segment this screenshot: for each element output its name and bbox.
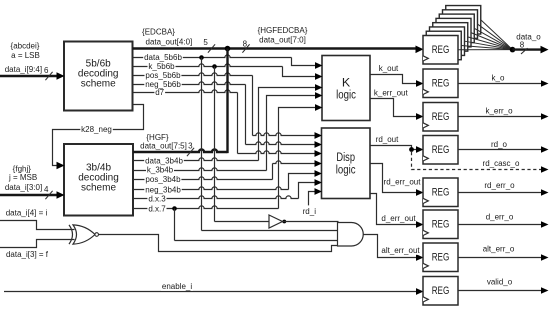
svg-text:data_out[4:0]: data_out[4:0] <box>146 37 193 46</box>
wire neg_5b6b to Disp input 2 <box>133 82 246 85</box>
arrowhead into k REG <box>416 80 424 87</box>
arrowhead into Disp input 4 <box>315 160 323 167</box>
junction dot buffer output <box>282 220 286 224</box>
svg-text:K: K <box>342 78 351 90</box>
wire output k_err_o <box>458 116 542 118</box>
svg-text:REG: REG <box>432 219 450 231</box>
arrowhead into Disp input 6 <box>315 179 323 186</box>
svg-text:REG: REG <box>432 44 450 56</box>
input data_i[3:0] wire <box>0 194 58 196</box>
register stack REG data_o (8 deep) <box>426 6 481 60</box>
front REG of data_o stack <box>423 36 458 65</box>
register REG valid_o <box>423 277 458 306</box>
rd_i stub into Disp input 7 <box>309 192 316 206</box>
arrowhead k28_neg into 3b/4b <box>57 162 65 170</box>
wire pos_3b4b rises to Disp input 4 <box>133 177 273 180</box>
bus-width slash 6 <box>45 72 52 80</box>
bus slash 8 <box>242 44 249 52</box>
vertical trunk data_5b6b to AND gate <box>201 58 203 231</box>
register REG d_err_o <box>423 210 458 239</box>
svg-text:REG: REG <box>432 187 450 199</box>
clock wedge d_err_o REG <box>423 230 428 235</box>
wire neg_3b4b rises to Disp input 5 <box>133 187 289 190</box>
svg-text:data_i[3:0]: data_i[3:0] <box>5 183 42 192</box>
junction dot bus merge <box>225 46 231 52</box>
label neg_3b4b <box>144 186 181 194</box>
bus data_o output <box>513 48 542 50</box>
arrowhead into K input 1 <box>315 62 323 69</box>
bus vertical trunk x=227 <box>226 49 228 154</box>
arrowhead into Disp input 1 <box>315 132 323 139</box>
label k_5b6b <box>148 63 176 71</box>
arrowhead k_o <box>541 80 549 87</box>
svg-text:k_err_o: k_err_o <box>485 107 513 116</box>
svg-text:REG: REG <box>432 144 450 156</box>
svg-text:pos_5b6b: pos_5b6b <box>145 71 181 80</box>
svg-text:scheme: scheme <box>81 78 116 89</box>
wire k_5b6b to K logic <box>133 64 283 67</box>
svg-text:8: 8 <box>243 39 248 48</box>
label enable_i <box>161 283 193 291</box>
AND gate U7 alt_err <box>338 223 364 247</box>
bus slash data_o 8 <box>521 48 528 54</box>
wire k_3b4b rises to K input 4 <box>133 168 267 171</box>
wire output rd_o <box>458 149 542 151</box>
junction dot data_5b6b <box>199 55 204 60</box>
register REG k_o <box>423 69 458 98</box>
register REG rd_o <box>423 136 458 165</box>
arrowhead into K input 5 <box>315 104 323 111</box>
svg-text:4: 4 <box>44 185 49 194</box>
svg-text:{HGFEDCBA}: {HGFEDCBA} <box>258 26 308 35</box>
svg-text:pos_3b4b: pos_3b4b <box>145 175 181 184</box>
arrowhead alt_err_o <box>541 254 549 261</box>
wire data_i[4] into XNOR <box>0 221 75 230</box>
label alt_err_out <box>381 247 421 255</box>
wire alt_err_out to REG7 <box>363 235 416 258</box>
wire output k_o <box>458 83 542 85</box>
svg-text:3: 3 <box>188 141 193 150</box>
junction dot k_5b6b <box>212 64 217 69</box>
vertical drop d.x.7 to AND gate <box>174 209 176 241</box>
svg-text:d_err_out: d_err_out <box>381 214 416 223</box>
arrowhead d_err_o <box>541 221 549 228</box>
K logic box U3 <box>322 56 370 121</box>
clock wedge alt_err_o REG <box>423 263 428 268</box>
svg-text:REG: REG <box>432 285 450 297</box>
svg-text:a = LSB: a = LSB <box>11 51 40 60</box>
svg-text:8: 8 <box>520 41 525 50</box>
bus slash 5 <box>208 44 215 52</box>
clock wedge k_o REG <box>423 89 428 94</box>
register REG rd_err_o <box>423 178 458 207</box>
svg-text:data_out[7:5]: data_out[7:5] <box>140 141 187 150</box>
wire output alt_err_o <box>458 257 542 259</box>
svg-text:rd_err_out: rd_err_out <box>384 177 422 186</box>
arrowhead rd_o <box>541 146 549 153</box>
svg-text:logic: logic <box>336 165 356 177</box>
clock wedge data_o REG <box>423 56 428 61</box>
svg-text:k_out: k_out <box>379 64 399 73</box>
arrowhead data_o <box>541 46 549 54</box>
svg-text:k28_neg: k28_neg <box>81 125 112 134</box>
arrowhead into Disp input 5 <box>315 170 323 177</box>
5b/6b decoder box U1 <box>64 42 133 111</box>
wire d.x.7 lower run to AND input 3 <box>175 240 339 242</box>
arrowhead into k_err REG <box>416 113 424 120</box>
svg-text:k_o: k_o <box>492 73 505 82</box>
bus data_out[4:0] {EDCBA} <box>133 47 416 49</box>
3b/4b decoder box U2 <box>64 144 133 216</box>
arrowhead into Disp input 2 <box>315 141 323 148</box>
svg-text:d_err_o: d_err_o <box>486 213 514 222</box>
clock wedge rd_err_o REG <box>423 198 428 203</box>
arrowhead bus into REG stack <box>416 46 424 54</box>
svg-text:{abcdei}: {abcdei} <box>11 41 40 50</box>
vertical trunk k_5b6b to rd buffer <box>214 67 216 222</box>
svg-text:d.x.7: d.x.7 <box>148 205 166 214</box>
svg-text:neg_3b4b: neg_3b4b <box>145 186 181 195</box>
svg-text:alt_err_out: alt_err_out <box>381 246 420 255</box>
svg-text:rd_casc_o: rd_casc_o <box>483 159 520 168</box>
svg-text:d7: d7 <box>155 88 164 97</box>
junction dot data_o <box>510 47 516 53</box>
arrowhead into rd REG <box>416 146 424 153</box>
svg-text:data_3b4b: data_3b4b <box>145 156 183 165</box>
label pos_3b4b <box>145 176 182 184</box>
svg-text:data_i[4] = i: data_i[4] = i <box>6 209 48 218</box>
svg-text:logic: logic <box>336 90 356 102</box>
svg-text:scheme: scheme <box>81 182 116 193</box>
wire data_5b6b lower run to AND input 2 <box>202 230 338 232</box>
label data_5b6b <box>143 54 183 62</box>
arrowhead k_err_o <box>541 113 549 120</box>
wire k28_neg from 5b/6b to 3b/4b <box>53 105 144 166</box>
label k28_neg <box>80 126 113 134</box>
label d.x.7 <box>147 205 166 213</box>
svg-text:5: 5 <box>203 38 208 47</box>
svg-text:rd_o: rd_o <box>491 140 508 149</box>
dashed wire rd_casc_o <box>412 152 542 170</box>
bus data_out[7:5] {HGF} joins vertical trunk <box>133 149 227 152</box>
arrowhead into 5b/6b <box>57 72 65 80</box>
wire k_err_out to REG3 <box>370 99 416 117</box>
bus slash 3 <box>187 148 194 156</box>
clock wedge k_err_o REG <box>423 123 428 128</box>
arrowhead into K input 2 <box>315 73 323 80</box>
arrowhead valid_o <box>541 287 549 294</box>
arrowhead into 3b/4b <box>57 191 65 199</box>
svg-text:k_5b6b: k_5b6b <box>148 62 175 71</box>
XNOR output bubble <box>95 233 99 237</box>
svg-text:k_err_out: k_err_out <box>374 89 409 98</box>
svg-text:6: 6 <box>44 66 49 75</box>
svg-text:d.x.3: d.x.3 <box>148 195 166 204</box>
clock wedge rd_o REG <box>423 156 428 161</box>
arrowhead into alt_err REG <box>416 254 424 261</box>
svg-text:alt_err_o: alt_err_o <box>483 245 515 254</box>
label neg_5b6b <box>144 81 181 89</box>
svg-text:REG: REG <box>432 111 450 123</box>
fan-out wires from stack to data_o junction <box>458 20 513 50</box>
wire k_out to REG2 <box>370 75 416 84</box>
arrowhead into K input 4 <box>315 92 323 99</box>
wire XNOR output to AND input 4 <box>99 235 339 252</box>
label d.x.3 <box>147 195 166 203</box>
svg-text:Disp: Disp <box>336 152 355 164</box>
register REG alt_err_o <box>423 243 458 272</box>
arrowhead into Disp input 3 <box>315 150 323 157</box>
svg-text:k_3b4b: k_3b4b <box>147 166 174 175</box>
wire data_5b6b to K logic <box>133 55 292 58</box>
svg-text:rd_i: rd_i <box>303 207 317 216</box>
label d7 <box>154 89 165 97</box>
wire d7 to Disp input 3 <box>133 90 238 93</box>
label pos_5b6b <box>145 72 182 80</box>
wire data_i[3] into XNOR <box>0 240 75 248</box>
svg-text:{EDCBA}: {EDCBA} <box>142 28 175 37</box>
wire output rd_err_o <box>458 192 542 194</box>
arrowhead into rd_err REG <box>416 189 424 196</box>
arrowhead into K input 3 <box>315 84 323 91</box>
svg-text:data_out[7:0]: data_out[7:0] <box>259 35 306 44</box>
svg-text:REG: REG <box>432 78 450 90</box>
svg-text:data_i[9:4]: data_i[9:4] <box>5 65 42 74</box>
wire output d_err_o <box>458 224 542 226</box>
junction dot rd_out <box>409 147 414 152</box>
wire data_3b4b rises to K input 3 <box>133 158 259 161</box>
arrowhead into d_err REG <box>416 221 424 228</box>
label k_3b4b <box>146 166 174 174</box>
label data_3b4b <box>144 157 184 165</box>
svg-text:data_5b6b: data_5b6b <box>144 53 182 62</box>
junction dot d.x.7 <box>172 206 177 211</box>
buffer U5 rd_i <box>269 215 283 228</box>
wire d.x.3 rises to Disp input 6 <box>133 196 299 199</box>
XNOR gate U6 <box>73 225 95 244</box>
clock wedge valid_o REG <box>423 297 428 302</box>
wire k_5b6b lower run to buffer input <box>215 221 270 223</box>
wire rd_out to REG4 <box>370 146 416 150</box>
svg-text:valid_o: valid_o <box>487 278 513 287</box>
wire output valid_o <box>458 290 542 292</box>
wire rd_err_out to REG5 <box>370 164 416 193</box>
wire d_err_out to REG6 <box>370 194 416 225</box>
input data_i[9:4] wire <box>0 75 58 77</box>
dashed arrowhead rd_casc_o <box>541 166 549 173</box>
svg-text:rd_out: rd_out <box>376 135 399 144</box>
svg-text:data_i[3] = f: data_i[3] = f <box>6 250 49 259</box>
wire enable_i to REG8 <box>4 291 416 293</box>
arrowhead rd_err_o <box>541 189 549 196</box>
svg-text:rd_err_o: rd_err_o <box>484 181 515 190</box>
wire d.x.7 rises to K input 5 <box>133 206 279 209</box>
arrowhead into Disp input 7 <box>315 188 323 195</box>
svg-text:data_o: data_o <box>516 32 541 41</box>
svg-text:j = MSB: j = MSB <box>8 173 37 182</box>
svg-text:enable_i: enable_i <box>162 282 192 291</box>
bus-width slash 4 <box>45 191 52 199</box>
Disp logic box U4 <box>322 128 371 199</box>
arrowhead into valid REG <box>416 288 424 295</box>
wire pos_5b6b to Disp input 1 <box>133 73 253 76</box>
svg-text:REG: REG <box>432 252 450 264</box>
wire buffer output rd_i to AND input 1 <box>283 221 339 223</box>
register REG k_err_o <box>423 103 458 132</box>
